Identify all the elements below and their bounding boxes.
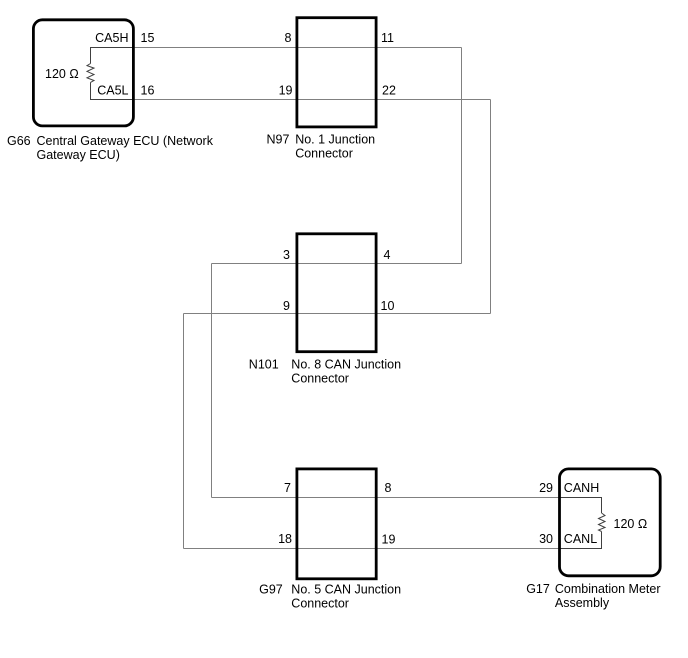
wire CANL: vertical drop from N97 pin 22 run to N101 pin 10 level: [490, 100, 492, 314]
svg-text:CANH: CANH: [564, 481, 599, 495]
svg-text:No. 1 Junction: No. 1 Junction: [295, 132, 375, 146]
svg-text:G17: G17: [526, 582, 550, 596]
svg-text:15: 15: [141, 31, 155, 45]
svg-text:CA5L: CA5L: [97, 83, 128, 97]
svg-text:Central Gateway ECU (Network: Central Gateway ECU (Network: [37, 134, 214, 148]
svg-text:Connector: Connector: [291, 597, 349, 611]
wire CANH: vertical drop from N97 pin 11 run to N101 pin 4 level: [461, 48, 463, 264]
svg-text:Connector: Connector: [295, 146, 353, 160]
svg-text:4: 4: [384, 248, 391, 262]
svg-text:N101: N101: [249, 358, 279, 372]
svg-text:29: 29: [539, 481, 553, 495]
svg-text:3: 3: [283, 248, 290, 262]
svg-text:11: 11: [381, 31, 394, 45]
junction connector box G97: [297, 469, 376, 579]
svg-text:9: 9: [283, 299, 290, 313]
svg-text:CA5H: CA5H: [95, 31, 128, 45]
svg-text:16: 16: [141, 83, 155, 97]
svg-text:19: 19: [279, 83, 293, 97]
svg-text:8: 8: [285, 31, 292, 45]
svg-text:22: 22: [382, 83, 396, 97]
resistor 120 ohm inside G17 (zigzag): [599, 513, 606, 532]
wire CANL: horizontal through G97 pins 18/19 to G17 pin 30: [184, 548, 602, 550]
svg-text:No. 8 CAN Junction: No. 8 CAN Junction: [291, 358, 401, 372]
svg-text:30: 30: [539, 532, 553, 546]
internal wire G66: resistor to CA5L lead: [91, 82, 134, 99]
svg-text:10: 10: [381, 299, 395, 313]
meter box G17 Combination Meter Assembly (rounded): [560, 469, 661, 576]
svg-text:120 Ω: 120 Ω: [45, 67, 79, 81]
svg-text:7: 7: [284, 481, 291, 495]
ECU box G66 Central Gateway ECU (rounded): [33, 20, 133, 126]
svg-text:18: 18: [278, 532, 292, 546]
svg-text:G66: G66: [7, 134, 31, 148]
junction connector box N101: [297, 234, 376, 352]
svg-text:Connector: Connector: [291, 372, 349, 386]
svg-text:8: 8: [385, 481, 392, 495]
svg-text:No. 5 CAN Junction: No. 5 CAN Junction: [291, 583, 401, 597]
svg-text:19: 19: [382, 533, 396, 547]
resistor 120 ohm inside G66 (zigzag): [87, 64, 94, 83]
wire CANL: vertical from N101 pin 9 down to G97 pin 18 level: [183, 314, 185, 549]
svg-text:G97: G97: [259, 583, 283, 597]
internal wire G17: CANH lead to terminating resistor: [560, 498, 602, 514]
wire CANH: vertical from N101 pin 3 down to G97 pin 7 level: [211, 264, 213, 498]
svg-text:CANL: CANL: [564, 532, 597, 546]
wire CANL: horizontal into N101 pin 10 across to pin 9: [184, 313, 491, 315]
wire CANH: horizontal into N101 pin 4 across to pin 3: [212, 263, 462, 265]
svg-text:Assembly: Assembly: [555, 596, 610, 610]
internal wire G17: resistor to CANL lead: [560, 532, 602, 549]
svg-text:120 Ω: 120 Ω: [614, 517, 648, 531]
internal wire G66: CA5H lead to terminating resistor: [91, 48, 134, 64]
svg-text:N97: N97: [267, 132, 290, 146]
junction connector box N97: [297, 18, 376, 127]
wire CANH: horizontal through G97 pins 7/8 to G17 pin 29: [212, 497, 602, 499]
wire CANH: G66 pin 15 to N97 pin 8/11 horizontal: [91, 47, 462, 49]
wire CANL: G66 pin 16 to N97 pin 19/22 horizontal: [91, 99, 491, 101]
svg-text:Combination Meter: Combination Meter: [555, 582, 661, 596]
svg-text:Gateway ECU): Gateway ECU): [37, 148, 120, 162]
